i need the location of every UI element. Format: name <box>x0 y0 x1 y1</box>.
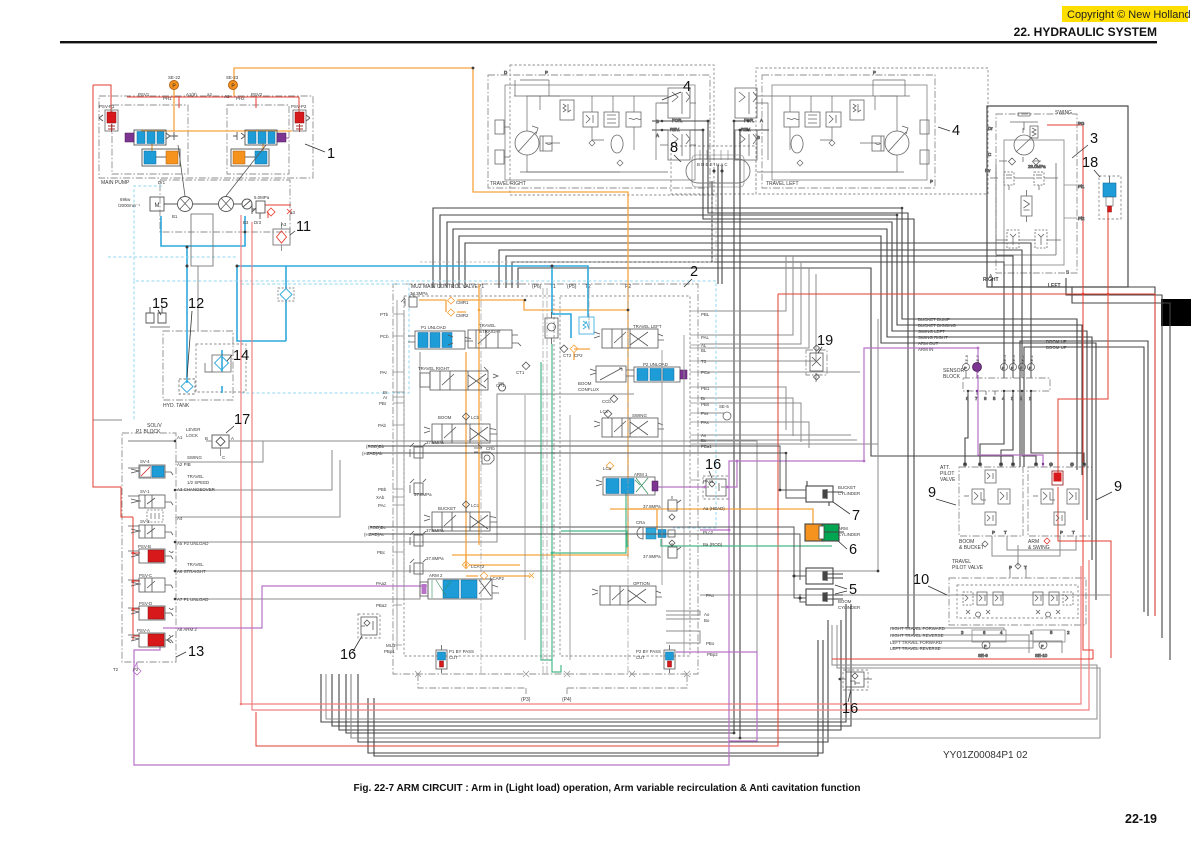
svg-text:REV.: REV. <box>670 127 680 132</box>
wire sensor SE-3 line <box>506 256 1013 378</box>
solenoid SV-4 <box>131 465 173 478</box>
boom bucket pilot internals <box>964 470 1010 547</box>
svg-text:SWING: SWING <box>187 455 202 460</box>
svg-text:PSV1: PSV1 <box>138 92 150 97</box>
svg-text:P: P <box>1009 565 1012 570</box>
wire green CRa link <box>561 531 627 546</box>
check CMR2 <box>448 309 455 316</box>
svg-text:C: C <box>222 455 225 460</box>
wire swivel drop 1 <box>717 165 719 284</box>
svg-text:SE-7: SE-7 <box>975 354 980 364</box>
svg-text:A5 P2 UNLOAD: A5 P2 UNLOAD <box>177 541 208 546</box>
callout 12 <box>187 296 204 377</box>
svg-text:A: A <box>231 436 234 441</box>
sensor block frame <box>963 378 1050 391</box>
callout 16 right <box>705 457 721 478</box>
svg-text:⑥: ⑥ <box>1070 462 1074 467</box>
svg-text:Copyright © New Holland: Copyright © New Holland <box>1067 9 1191 21</box>
svg-text:SV-3: SV-3 <box>140 519 150 524</box>
wire green mcv bottom u <box>552 660 561 672</box>
copyright highlight <box>1062 6 1191 22</box>
callout 14 <box>227 348 249 364</box>
edge tab <box>1161 299 1191 326</box>
wire travel right FOR <box>652 121 1004 628</box>
svg-text:a2: a2 <box>207 92 212 97</box>
sol block T2 P2 ports <box>133 662 141 675</box>
svg-text:CP1: CP1 <box>496 383 505 388</box>
travel right motor frame <box>488 75 710 188</box>
sensor SE-3 <box>1010 364 1017 379</box>
check mid T1 <box>545 312 558 344</box>
swing motor inner dashdot frame <box>996 114 1077 273</box>
wire drain dashed tank box <box>241 284 409 393</box>
wire 19 valve line <box>815 345 817 382</box>
wire red psv1 stub <box>179 97 256 108</box>
wire MCV right port Dr <box>700 398 793 436</box>
check valve 11 <box>273 222 290 251</box>
svg-text:B: B <box>656 119 659 124</box>
svg-text:PAo: PAo <box>706 593 715 598</box>
wire red swing PG <box>832 125 1093 659</box>
SE-5 sensor <box>723 412 731 420</box>
callout 11 <box>290 219 311 235</box>
svg-text:B D E E I H A C: B D E E I H A C <box>697 162 728 167</box>
svg-text:RIGHT TRAVEL FORWARD: RIGHT TRAVEL FORWARD <box>890 626 945 631</box>
svg-text:Dr1: Dr1 <box>158 180 166 185</box>
travel pilot left group <box>963 592 1003 617</box>
svg-text:37.8MPa: 37.8MPa <box>426 440 444 445</box>
svg-text:P1 BY PASS: P1 BY PASS <box>449 649 474 654</box>
wire right travel reverse label line <box>892 635 1029 653</box>
svg-text:5: 5 <box>993 396 996 401</box>
svg-text:A1: A1 <box>177 435 183 440</box>
sensor rotated labels <box>964 354 1034 364</box>
lever lock valve 17 <box>205 435 234 460</box>
svg-text:2: 2 <box>1067 630 1070 635</box>
MCV bottom manifold <box>415 671 690 694</box>
wire sensor pin5 drop <box>1031 391 1084 464</box>
check CMR1 <box>448 297 455 304</box>
callout 4 right motor <box>662 79 691 100</box>
svg-text:BOOM: BOOM <box>838 599 852 604</box>
travel left speed spools <box>735 88 757 160</box>
callout 9 right <box>1096 479 1122 500</box>
travel left counterbalance valve <box>784 100 864 153</box>
wire sensor SE-2 line <box>499 250 1022 378</box>
wire PAo line <box>700 594 1110 596</box>
wire salmon pump line 2 <box>252 222 1089 710</box>
main pump circle 1 <box>178 145 267 212</box>
svg-text:Aa (HEAD): Aa (HEAD) <box>703 506 725 511</box>
wire travel left REV <box>351 130 769 738</box>
wire A4 line <box>175 460 340 517</box>
wire bottom bus 6 <box>374 640 818 756</box>
svg-text:4: 4 <box>683 79 691 95</box>
svg-text:P1 BLOCK: P1 BLOCK <box>136 429 161 435</box>
svg-text:(HEAD)Ab: (HEAD)Ab <box>362 451 383 456</box>
svg-text:P: P <box>1060 530 1063 535</box>
swing brake spring <box>1030 126 1038 138</box>
wire red PB1 long loop <box>256 294 1155 746</box>
svg-text:5: 5 <box>1050 630 1053 635</box>
svg-text:TRAVEL RIGHT: TRAVEL RIGHT <box>490 181 526 187</box>
svg-text:Pi2: Pi2 <box>1078 216 1085 221</box>
svg-text:BOOM UP: BOOM UP <box>1046 345 1067 350</box>
svg-text:MU2 MAIN CONTROL VALVE: MU2 MAIN CONTROL VALVE <box>411 284 479 290</box>
wire att pilot P lines <box>992 536 1060 556</box>
valve 16 MU1 <box>361 617 377 635</box>
svg-text:P: P <box>964 366 967 371</box>
svg-text:PBo: PBo <box>706 641 715 646</box>
svg-text:VALVE: VALVE <box>940 477 956 483</box>
pump regulator spool left <box>125 130 178 145</box>
wire bucket dump pilot line <box>433 208 1077 470</box>
svg-text:Bo: Bo <box>704 618 710 623</box>
sensor SE-9 <box>982 641 990 649</box>
wire cyan filter14 stub <box>221 350 223 393</box>
wire MCV right port PAs <box>700 422 809 448</box>
hyd tank frame <box>163 331 233 400</box>
wire travel pilot P T <box>1010 545 1026 578</box>
svg-text:15: 15 <box>152 296 168 312</box>
svg-text:SE-8: SE-8 <box>964 354 969 364</box>
sensor SE-1 <box>1028 364 1035 379</box>
wire cyan T1 step <box>552 266 571 338</box>
svg-text:PSV-B: PSV-B <box>138 544 151 549</box>
svg-text:CYLINDER: CYLINDER <box>838 605 860 610</box>
wire orange MCV entry <box>478 284 480 545</box>
callout 1 <box>305 144 335 162</box>
MCV internal dash-dot verticals <box>481 288 628 674</box>
wire cyan tank drop <box>186 247 188 383</box>
pump regulator spool right <box>233 130 286 145</box>
wire purple SE-7 drop <box>978 375 1043 467</box>
sensor SE-10 <box>1039 641 1047 649</box>
svg-text:22. HYDRAULIC SYSTEM: 22. HYDRAULIC SYSTEM <box>1014 25 1157 39</box>
wire boom cylinder rod line <box>370 527 806 598</box>
check CP2 <box>570 345 578 353</box>
wire boom up line 1 <box>1020 341 1148 616</box>
svg-text:16: 16 <box>842 701 858 717</box>
wire sensor pin3 drop <box>965 391 968 464</box>
wire sensor SE-1 line <box>465 243 1031 378</box>
svg-text:SE-4: SE-4 <box>1002 354 1007 364</box>
svg-text:D: D <box>504 70 507 75</box>
valve P1 UNLOAD <box>408 331 473 349</box>
sensor SE-2 <box>1019 364 1026 379</box>
wire PBo line <box>666 631 700 643</box>
solenoid PSV-B <box>131 549 173 563</box>
svg-text:LEFT: LEFT <box>1048 283 1061 289</box>
svg-text:(ROD)Bc: (ROD)Bc <box>368 525 387 530</box>
valve SWING <box>594 418 664 437</box>
wire orange CMR2 link <box>457 312 466 565</box>
svg-text:(P4): (P4) <box>562 697 572 703</box>
svg-text:4: 4 <box>952 123 960 139</box>
pilot valve A4 <box>147 510 163 522</box>
svg-text:13: 13 <box>188 644 204 660</box>
callout 6 <box>838 541 857 558</box>
valve18 dashed box <box>1099 176 1121 219</box>
tank filter sub frame <box>196 344 246 392</box>
svg-text:SE-9: SE-9 <box>978 653 988 658</box>
wire red sol spine <box>133 517 140 640</box>
svg-text:TRAVEL LEFT: TRAVEL LEFT <box>633 324 662 329</box>
svg-text:P: P <box>873 70 876 75</box>
filter 14 <box>205 355 231 372</box>
svg-text:A3: A3 <box>281 222 287 227</box>
svg-text:PLc2: PLc2 <box>703 530 714 535</box>
svg-text:B3: B3 <box>243 220 249 225</box>
swing relief left <box>1004 172 1014 190</box>
sensor pins <box>968 391 1022 395</box>
svg-text:SE-3: SE-3 <box>1011 354 1016 364</box>
sensor SE-8 <box>963 364 970 379</box>
wire travel right REV <box>652 130 1029 635</box>
arm swing pilot internals <box>1033 471 1079 544</box>
svg-text:10: 10 <box>913 572 929 588</box>
wire swing left pilot line <box>447 222 1087 520</box>
wire tank return gray <box>197 266 199 331</box>
svg-text:PBa2: PBa2 <box>376 603 387 608</box>
svg-text:C: C <box>988 152 991 157</box>
boom cylinder lower <box>793 575 844 606</box>
svg-text:HYD. TANK: HYD. TANK <box>163 403 190 409</box>
svg-text:A: A <box>656 133 659 138</box>
wire cyan cooler branch <box>237 266 286 341</box>
wire purple PAa2 <box>163 586 427 628</box>
svg-text:11: 11 <box>296 219 311 235</box>
wire MCV right port PCa <box>700 371 860 373</box>
svg-text:37.8MPa: 37.8MPa <box>643 554 661 559</box>
wire swivel E drop <box>711 181 713 262</box>
svg-text:TRAVEL LEFT: TRAVEL LEFT <box>766 181 799 187</box>
svg-text:Pss: Pss <box>701 411 709 416</box>
wire right travel forward label line <box>892 628 1004 630</box>
wire MCV right port PBL <box>700 256 786 311</box>
att pilot valve arm&swing frame <box>1028 467 1092 536</box>
svg-text:ARM 1: ARM 1 <box>634 472 648 477</box>
wire left travel reverse label line <box>892 630 1033 648</box>
svg-text:SE-2: SE-2 <box>1020 354 1025 364</box>
svg-text:SE-10: SE-10 <box>1035 653 1048 658</box>
wire bottom gray bus 2 <box>351 625 1100 738</box>
wire cyan main return <box>237 266 588 317</box>
wire bucket cylinder rod line <box>368 446 806 602</box>
wire green Ba ROD line <box>661 539 832 546</box>
svg-text:a3: a3 <box>290 210 295 215</box>
svg-text:B1: B1 <box>172 214 178 219</box>
swing motor outer solid frame <box>987 106 1128 287</box>
valve P2 BYPASS CUT <box>664 645 675 673</box>
wire Bo stub <box>666 618 700 620</box>
svg-text:LCAP2: LCAP2 <box>490 576 504 581</box>
wire red 18 drop <box>1058 212 1108 474</box>
callout 10 <box>913 572 947 595</box>
svg-text:PILOT VALVE: PILOT VALVE <box>952 565 984 571</box>
svg-text:FOR.: FOR. <box>744 118 755 123</box>
wire A5 p2 unload line <box>175 394 634 542</box>
PSV-P2 valve <box>293 110 310 132</box>
sensor SE-7 purple <box>973 363 982 379</box>
wire sensor pin2 drop <box>1001 391 1013 464</box>
valve ARM 1 <box>596 477 658 495</box>
wire purple PBp2 <box>676 652 757 741</box>
svg-text:CP2: CP2 <box>574 353 583 358</box>
wire pilot pin1 line <box>518 268 1013 464</box>
wire drain dashed sol drop <box>133 281 135 420</box>
wire orange main pilot A1 <box>234 68 628 557</box>
check LCAT2 <box>462 561 470 569</box>
svg-text:CMR2: CMR2 <box>456 313 469 318</box>
wire purple PLc2 <box>700 529 729 531</box>
main pump right regulator frame <box>227 105 289 174</box>
svg-text:LEFT TRAVEL FORWARD: LEFT TRAVEL FORWARD <box>890 640 942 645</box>
wire boom cylinder head line <box>370 534 806 602</box>
svg-text:Bs: Bs <box>701 438 707 443</box>
svg-text:37.8MPa: 37.8MPa <box>643 504 661 509</box>
valve TRAVEL STRAIGHT <box>448 330 521 348</box>
wire orange regulator right <box>236 131 292 152</box>
callout 19 <box>817 333 833 353</box>
svg-text:LCb: LCb <box>471 415 480 420</box>
callout 16 bottom <box>842 689 858 717</box>
valve CRa anticavitation <box>637 527 675 539</box>
valve P1 BYPASS CUT <box>436 645 447 673</box>
svg-text:XAb: XAb <box>376 495 385 500</box>
svg-text:Rv: Rv <box>985 168 991 173</box>
svg-text:/2000min⁻¹: /2000min⁻¹ <box>118 203 140 208</box>
boom cylinder upper <box>806 568 843 584</box>
svg-text:PSV-A: PSV-A <box>137 628 150 633</box>
wire orange Aa HEAD line <box>610 509 813 526</box>
wire cyan pump U <box>161 216 245 246</box>
svg-text:BOOM: BOOM <box>438 415 452 420</box>
svg-text:5.0MPa: 5.0MPa <box>254 195 270 200</box>
travel left brake cylinder <box>872 136 884 151</box>
MCV right inner column box <box>560 296 690 656</box>
svg-text:SWING LEFT: SWING LEFT <box>918 329 945 334</box>
svg-text:PBa1: PBa1 <box>701 444 712 449</box>
svg-text:CT1: CT1 <box>516 370 525 375</box>
wire swing right pilot line <box>453 229 1092 560</box>
svg-text:LEFT TRAVEL REVERSE: LEFT TRAVEL REVERSE <box>890 646 941 651</box>
svg-text:A2 PIB: A2 PIB <box>177 462 191 467</box>
svg-text:LCAT2: LCAT2 <box>471 564 485 569</box>
sol/v block labels <box>113 427 215 672</box>
svg-text:PBr: PBr <box>379 401 387 406</box>
valve BOOM CONFLUX <box>590 366 626 382</box>
svg-text:6: 6 <box>983 630 986 635</box>
svg-text:SWING: SWING <box>632 413 647 418</box>
svg-text:P: P <box>1011 366 1014 371</box>
relief pair bucket <box>410 531 426 574</box>
svg-text:REV.: REV. <box>741 127 751 132</box>
wire MCV right port T3 <box>700 274 816 361</box>
wire MCV right port Bs <box>700 439 857 441</box>
wire bottom bus 2 <box>332 604 851 726</box>
relief pair boom <box>410 443 426 494</box>
svg-text:(P3): (P3) <box>521 697 531 703</box>
sensor SE-4 <box>1001 364 1008 379</box>
svg-text:PAa2: PAa2 <box>376 581 387 586</box>
callout 17 <box>226 412 250 433</box>
check CP1 <box>499 384 506 391</box>
valve P2 UNLOAD <box>626 367 687 382</box>
solenoid PSV-A <box>131 633 173 647</box>
pump servo cylinder left <box>142 149 180 166</box>
svg-text:18: 18 <box>1082 155 1098 171</box>
svg-text:SE-1: SE-1 <box>1029 354 1034 364</box>
svg-text:PSV-P2: PSV-P2 <box>291 104 307 109</box>
wire red 5MPa <box>265 205 291 218</box>
svg-text:P: P <box>1002 366 1005 371</box>
valve BUCKET <box>424 512 497 531</box>
svg-text:4: 4 <box>1000 630 1003 635</box>
svg-text:(HEAD)Ac: (HEAD)Ac <box>364 532 385 537</box>
wire drain dashed main <box>134 186 716 528</box>
main pump circle 2 <box>219 197 234 212</box>
svg-text:LCc: LCc <box>471 503 480 508</box>
solenoid PSV-D <box>131 606 173 620</box>
relief 5.0MPa <box>252 201 265 219</box>
swing park brake <box>1010 113 1038 130</box>
svg-text:(ROD)Bb: (ROD)Bb <box>366 444 385 449</box>
callout 2 <box>684 264 698 287</box>
wire swing case line <box>1072 287 1170 660</box>
att pilot valve boom&bucket frame <box>959 467 1023 536</box>
svg-text:BOOM: BOOM <box>578 381 592 386</box>
svg-text:6: 6 <box>984 396 987 401</box>
main pump left regulator frame <box>112 105 188 174</box>
wire MCV right port PBa1 <box>700 319 878 444</box>
callout 5 <box>835 582 857 598</box>
svg-text:(P6): (P6) <box>532 284 542 290</box>
wire att pilot T lines <box>1007 536 1076 550</box>
travel left motor symbol <box>757 80 929 172</box>
valve 16 PAa1 <box>704 479 729 496</box>
svg-text:9: 9 <box>928 485 936 501</box>
svg-text:PAa1: PAa1 <box>703 479 714 484</box>
svg-text:P: P <box>1029 366 1032 371</box>
svg-text:PSV-C: PSV-C <box>139 573 152 578</box>
SE-10 box <box>1033 630 1065 642</box>
wire sensor SE-4 line <box>512 262 1004 378</box>
svg-text:A4: A4 <box>177 516 183 521</box>
bucket cylinder <box>806 481 843 506</box>
svg-text:5: 5 <box>849 582 857 598</box>
valve19 dashdot box <box>806 350 827 375</box>
callout 8 <box>670 140 681 162</box>
MCV inner verticals <box>397 300 684 660</box>
svg-text:P2 BY PASS: P2 BY PASS <box>636 649 661 654</box>
wire MCV right port PAL <box>700 256 793 335</box>
travel right inner box <box>505 85 695 180</box>
svg-text:Fig. 22-7 ARM CIRCUIT : Arm in: Fig. 22-7 ARM CIRCUIT : Arm in (Light lo… <box>354 783 861 794</box>
wire salmon pump line 1 <box>241 215 1081 704</box>
svg-text:Dr3: Dr3 <box>254 220 262 225</box>
svg-text:PCb: PCb <box>380 334 389 339</box>
svg-text:Ao: Ao <box>704 612 710 617</box>
callout 18 <box>1082 155 1100 177</box>
pump lower gear block frame <box>160 180 290 232</box>
wire bottom bus 5 <box>368 640 823 753</box>
check T2 spring cyan <box>579 317 594 334</box>
svg-text:12: 12 <box>188 296 204 312</box>
wire orange regulator left <box>141 131 174 152</box>
svg-text:37.8MPa: 37.8MPa <box>414 492 432 497</box>
svg-text:BLOCK: BLOCK <box>943 374 961 380</box>
